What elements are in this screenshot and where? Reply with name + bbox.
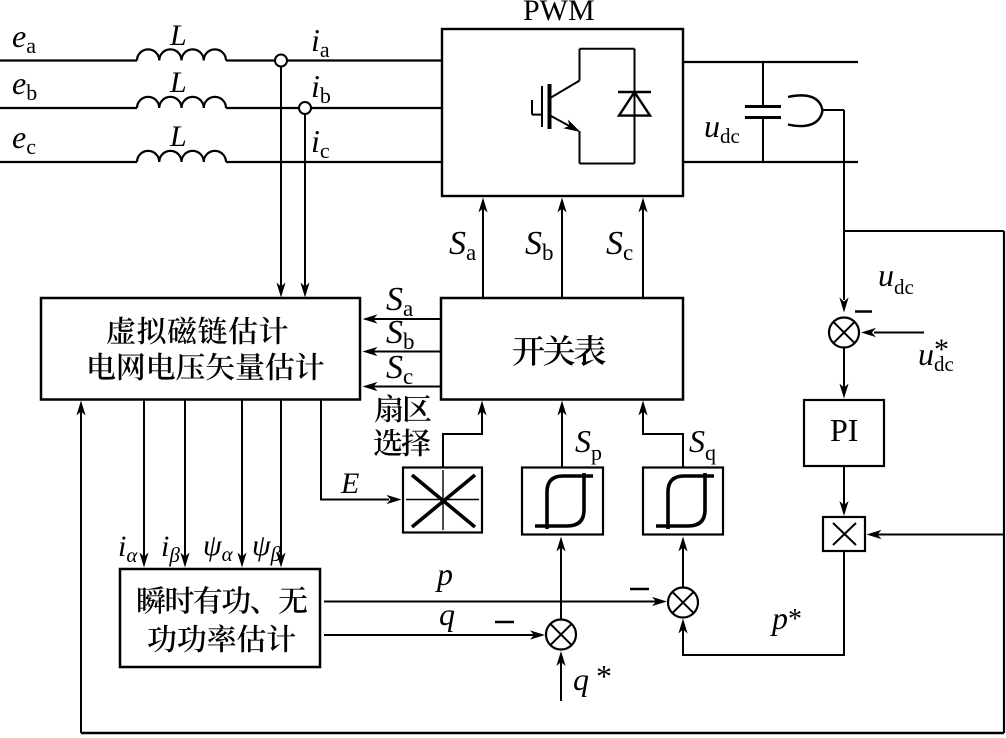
wire phase c right segment — [226, 161, 442, 163]
node tap i_b — [299, 102, 311, 114]
wire q error up to S_p hysteresis — [560, 542, 562, 620]
svg-text:udc: udc — [878, 257, 914, 299]
svg-text:PI: PI — [830, 412, 858, 448]
inductor L phase c — [137, 151, 226, 162]
wire right rail u_dc feedback — [1003, 231, 1005, 733]
svg-text:E: E — [340, 467, 359, 500]
wire IGBT inner loop top — [580, 48, 635, 50]
switch table block — [441, 298, 683, 400]
wire i_beta — [184, 400, 186, 562]
wire IGBT emitter drop — [579, 131, 581, 164]
wire u_dc branch to right rail — [844, 230, 1004, 232]
wire p error up to S_q hysteresis — [682, 542, 684, 588]
label block1 line1 — [107, 317, 288, 345]
summing node u_dc comparison — [829, 318, 859, 348]
wire DC bus positive — [683, 61, 858, 63]
wire PI to multiplier — [843, 466, 845, 510]
svg-text:ia: ia — [311, 22, 330, 62]
inductor L phase b — [137, 97, 226, 108]
label switch table — [513, 335, 605, 366]
svg-text:ec: ec — [12, 119, 36, 159]
svg-text:L: L — [169, 19, 187, 52]
diode D1 — [618, 92, 651, 116]
svg-text:*: * — [934, 333, 949, 366]
wire u_dc into multiplier — [873, 534, 1004, 536]
svg-text:*: * — [788, 604, 802, 635]
svg-text:Sb: Sb — [525, 225, 554, 265]
node tap i_a — [275, 55, 287, 67]
wire sector select output to switch table — [443, 407, 482, 468]
wire gate S_c to PWM — [642, 204, 644, 298]
wire summing node to PI — [843, 348, 845, 393]
hysteresis comparator S_p — [522, 468, 603, 535]
svg-text:Sa: Sa — [449, 225, 476, 265]
wire u_dc down to summing node — [843, 231, 845, 300]
wire gate S_b to PWM — [561, 204, 563, 298]
svg-text:Sc: Sc — [386, 349, 413, 389]
svg-text:Sq: Sq — [689, 423, 716, 465]
wire u_dc* setpoint input — [874, 332, 924, 334]
svg-text:Sp: Sp — [575, 423, 602, 465]
voltage sensor arc — [788, 95, 823, 126]
svg-text:q: q — [573, 661, 589, 697]
wire current sense b down to estimator — [304, 114, 306, 291]
label block2 line2 — [148, 624, 295, 652]
summing node p comparison — [668, 588, 698, 618]
svg-text:ψα: ψα — [203, 529, 234, 566]
svg-text:udc: udc — [704, 108, 740, 148]
label block2 line1 — [138, 586, 307, 614]
power estimator block — [120, 569, 320, 667]
wire S_c feedback to estimator — [369, 386, 441, 388]
svg-text:Sc: Sc — [606, 225, 633, 265]
transistor Q1 IGBT — [532, 81, 581, 132]
svg-text:ic: ic — [311, 123, 330, 163]
wire q output — [324, 634, 539, 636]
wire DC bus negative — [683, 161, 858, 163]
label block1 line2 — [90, 353, 324, 381]
wire E to sector select — [321, 400, 389, 500]
wire diode branch vertical — [634, 49, 636, 164]
wire q* setpoint input — [560, 658, 562, 701]
label sector select line2 — [374, 429, 430, 457]
wire i_alpha — [143, 400, 145, 562]
wire phase c — [0, 161, 137, 163]
hysteresis comparator S_q — [643, 468, 723, 535]
wire u_dc sense horizontal — [823, 109, 845, 111]
svg-text:*: * — [596, 658, 612, 694]
PWM converter block U1 — [442, 29, 683, 196]
wire S_p output to switch table — [561, 407, 563, 468]
svg-text:iα: iα — [118, 530, 138, 567]
svg-text:PWM: PWM — [523, 0, 595, 27]
wire S_a feedback to estimator — [369, 318, 441, 320]
svg-text:ψβ: ψβ — [252, 529, 282, 566]
sector select block — [403, 468, 482, 533]
minus sign at p summing node — [630, 588, 649, 591]
wire p output — [324, 601, 661, 603]
wire u_dc sense down — [843, 110, 845, 231]
wire phase b right segment — [226, 107, 442, 109]
wire IGBT inner loop bottom — [580, 163, 635, 165]
wire gate S_a to PWM — [482, 204, 484, 298]
wire phase a left segment — [0, 59, 137, 61]
wire feedback riser to estimator — [80, 406, 82, 733]
flux and voltage estimator block — [41, 298, 360, 400]
minus sign at q summing node — [495, 621, 514, 624]
wire psi_alpha — [241, 400, 243, 562]
svg-text:L: L — [169, 66, 187, 99]
wire multiplier output p* — [683, 551, 844, 655]
label sector select line1 — [375, 394, 431, 422]
inductor L phase a — [137, 49, 226, 60]
wire S_b feedback to estimator — [369, 351, 441, 353]
svg-text:p: p — [770, 600, 788, 636]
wire S_q output to switch table — [643, 407, 683, 468]
svg-text:q: q — [439, 596, 455, 632]
svg-text:ib: ib — [311, 68, 331, 108]
wire psi_beta — [280, 400, 282, 562]
wire phase a right segment — [226, 59, 442, 61]
svg-text:p: p — [435, 556, 453, 592]
svg-text:ea: ea — [12, 18, 36, 58]
wire bottom feedback — [81, 732, 1004, 735]
capacitor C1 — [745, 62, 781, 162]
wire phase b left segment — [0, 107, 137, 109]
summing node q comparison — [546, 620, 576, 650]
multiplier block — [823, 517, 865, 551]
svg-text:eb: eb — [12, 65, 37, 105]
wire IGBT collector drop — [579, 49, 581, 81]
minus sign at u_dc summing node — [855, 310, 872, 313]
svg-text:L: L — [169, 120, 187, 153]
svg-text:iβ: iβ — [161, 530, 180, 567]
PI regulator block — [804, 400, 884, 466]
wire current sense a down to estimator — [280, 67, 282, 292]
